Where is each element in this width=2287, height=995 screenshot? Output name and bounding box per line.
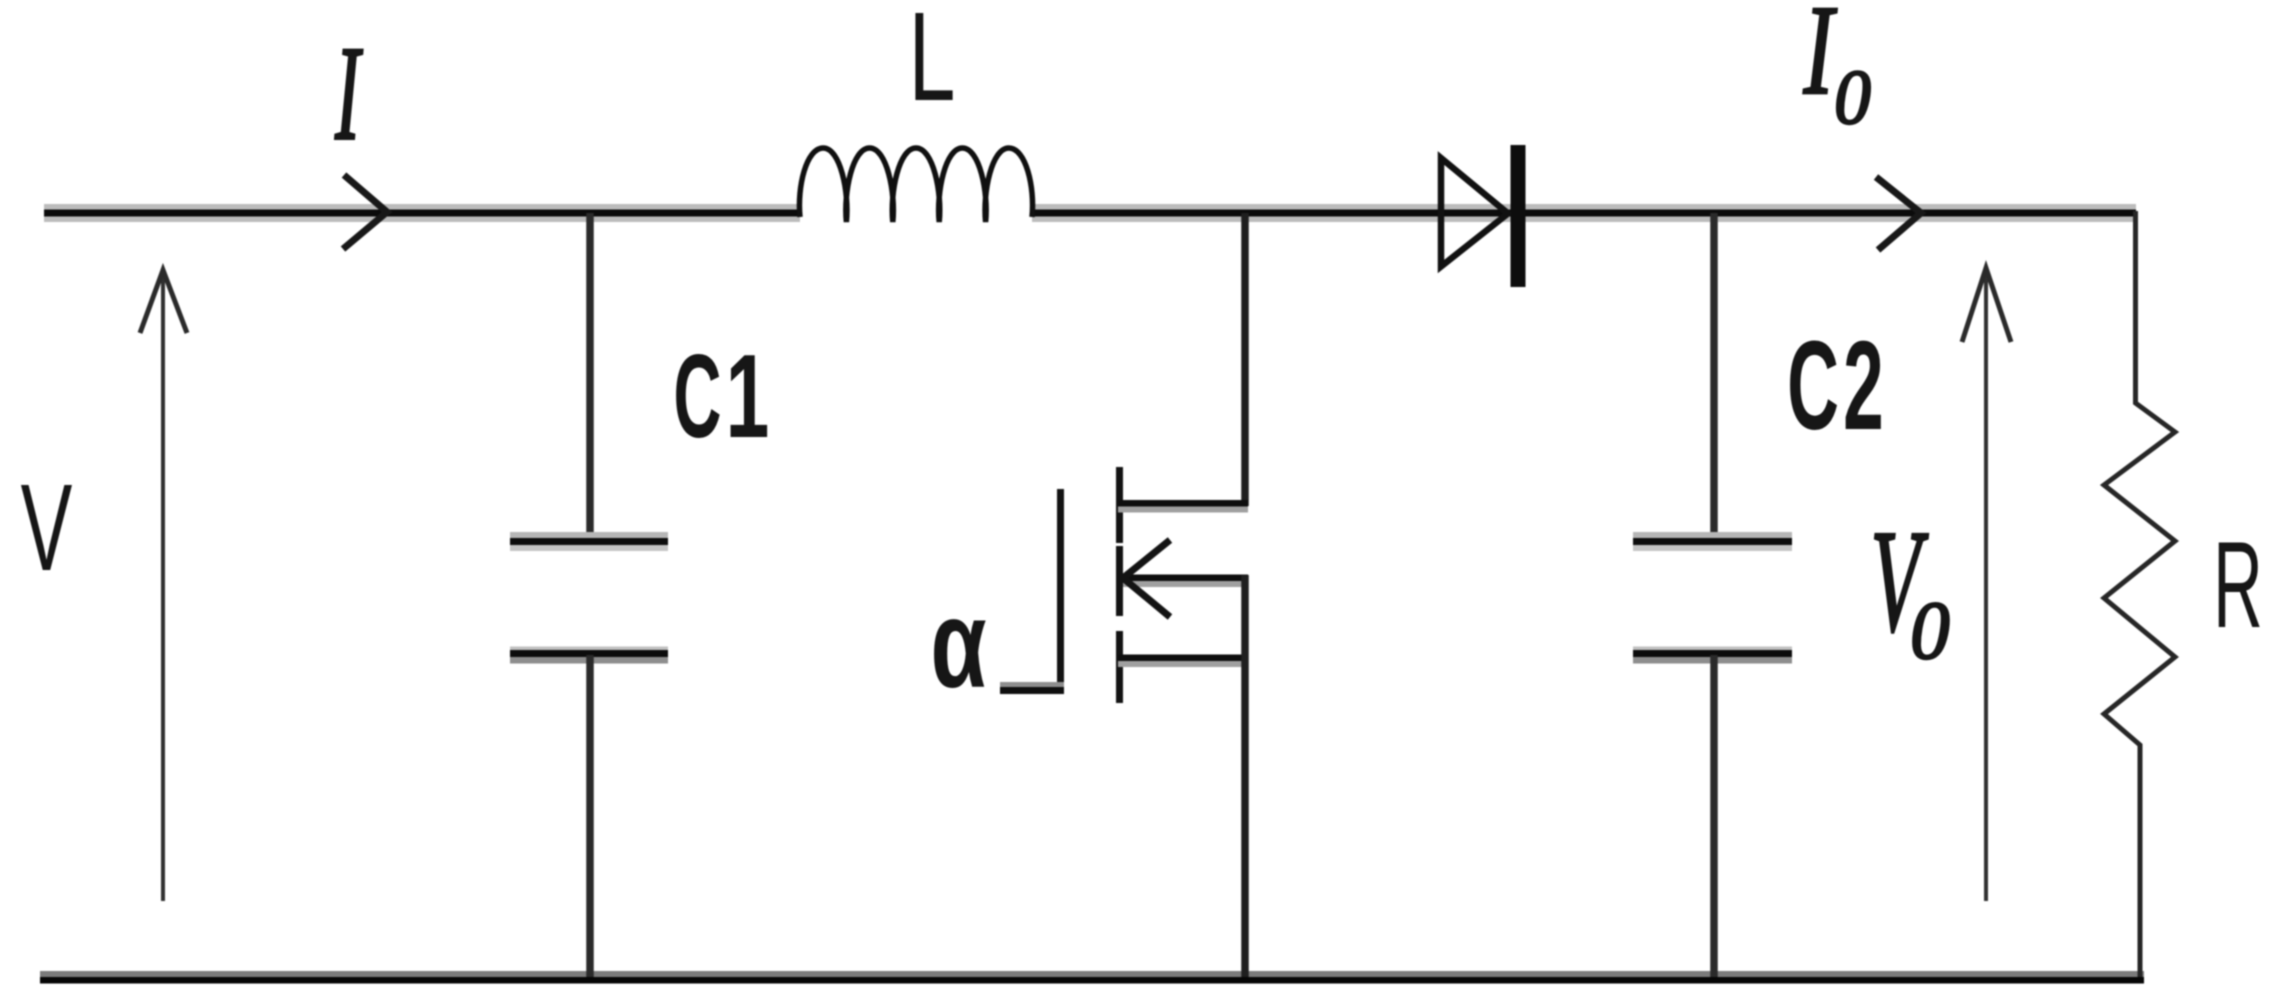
wire bottom return [40, 971, 2144, 984]
label C2 [1787, 315, 1884, 456]
capacitor C1 top plate [510, 532, 668, 551]
wire top input (left segment with gray halo) [44, 204, 800, 222]
svg-text:2: 2 [1843, 315, 1884, 456]
capacitor C2 bottom plate [1633, 647, 1792, 664]
wire C1 top stem [586, 213, 594, 538]
svg-text:V: V [21, 459, 73, 597]
wire C2 top stem [1710, 213, 1718, 538]
label Vo (output voltage) [1871, 500, 1950, 676]
arrow current I on top wire [343, 175, 387, 249]
arrow current Io on top wire [1876, 177, 1921, 250]
svg-text:I: I [1803, 0, 1838, 121]
svg-text:L: L [909, 0, 956, 127]
svg-text:α: α [930, 575, 986, 714]
svg-text:0: 0 [1910, 584, 1949, 676]
arrow voltage V (left source arrow) [140, 270, 187, 901]
transistor Q1 channel bar [1116, 467, 1123, 703]
transistor Q1 source connection [1118, 575, 1248, 977]
label Io (output current) [1803, 0, 1871, 140]
wire top output (right segment with gray halo) [1032, 204, 2136, 222]
transistor Q1 body arrow [1123, 540, 1248, 617]
svg-text:R: R [2213, 517, 2263, 654]
transistor Q1 gate lead [1000, 489, 1064, 694]
svg-text:C: C [673, 331, 721, 463]
wire C2 bottom stem [1710, 655, 1718, 977]
svg-text:0: 0 [1834, 55, 1871, 140]
resistor R with corner and stems [2104, 211, 2175, 977]
arrow voltage Vo (output arrow) [1962, 268, 2011, 901]
svg-text:1: 1 [726, 331, 770, 463]
capacitor C1 bottom plate [510, 647, 668, 664]
label C1 [673, 331, 769, 463]
inductor L coil [799, 148, 1032, 222]
wire C1 bottom stem [586, 655, 594, 977]
svg-text:I: I [334, 18, 363, 168]
diode D anode triangle [1441, 158, 1508, 267]
transistor Q1 drain connection [1118, 213, 1248, 513]
svg-text:C: C [1787, 315, 1839, 456]
diode D cathode bar [1511, 145, 1526, 287]
capacitor C2 top plate [1633, 532, 1792, 551]
